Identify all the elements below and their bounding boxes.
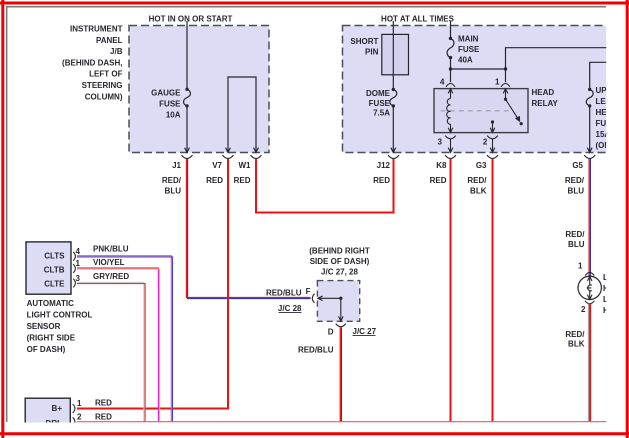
svg-text:PNK/BLU: PNK/BLU — [93, 244, 129, 253]
svg-text:W1: W1 — [239, 161, 252, 170]
pin V7 — [223, 155, 234, 158]
svg-text:K8: K8 — [436, 161, 447, 170]
pin W1 — [251, 155, 262, 158]
wire: main fuse to junction — [450, 58, 452, 69]
wire: B+ pin 2 bus to right edge (RED) — [77, 421, 607, 423]
svg-text:G5: G5 — [572, 161, 583, 170]
wire: V7-W1 jumper inside J/B — [226, 77, 259, 152]
svg-text:PANEL: PANEL — [96, 36, 123, 45]
wire: gauge fuse to pin J1 — [185, 106, 190, 152]
svg-text:J/C 27, 28: J/C 27, 28 — [321, 267, 358, 276]
fuse F1: GAUGE FUSE 10A — [151, 88, 190, 120]
junction connector J/C 28 box (dashed) — [317, 281, 359, 322]
svg-text:4: 4 — [440, 77, 445, 86]
svg-text:GAUGE: GAUGE — [151, 89, 181, 98]
svg-text:J/B: J/B — [110, 47, 123, 56]
svg-text:BLU: BLU — [568, 186, 585, 195]
wire: CLTS to bottom (PNK/BLU) — [77, 256, 171, 422]
svg-text:RED/: RED/ — [565, 330, 585, 339]
svg-text:RED/: RED/ — [565, 230, 585, 239]
pin 3 of sensor (CLTE) — [73, 279, 75, 288]
svg-text:SHORT: SHORT — [350, 37, 378, 46]
wire: G3 down to bottom (RED/BLK) — [492, 159, 494, 422]
battery box B+ — [25, 398, 70, 424]
svg-text:J/C 27: J/C 27 — [353, 327, 377, 336]
pin J12 — [388, 155, 399, 158]
wire label RED/BLK (below bulb) — [565, 330, 585, 348]
svg-text:GRY/RED: GRY/RED — [93, 272, 129, 281]
svg-text:HOT AT ALL TIMES: HOT AT ALL TIMES — [381, 14, 455, 23]
svg-text:RED/: RED/ — [162, 176, 182, 185]
wire label RED/BLU (J1) — [162, 176, 182, 195]
node: junction at relay pin 1 branch — [504, 67, 507, 70]
wire label RED/BLK (G3) — [467, 176, 487, 195]
svg-text:HOT IN ON OR START: HOT IN ON OR START — [149, 14, 233, 23]
pin 3 (below relay) — [438, 136, 456, 153]
bulb: left headlight — [578, 261, 615, 315]
svg-text:RED: RED — [95, 412, 112, 421]
svg-text:1: 1 — [77, 399, 82, 408]
junction block: HOT AT ALL TIMES box (dashed) — [343, 26, 629, 153]
svg-text:3: 3 — [76, 274, 81, 283]
wire: relay pin 2 (switched output) — [490, 120, 495, 132]
wire: coil bottom to pin 3 — [448, 124, 453, 132]
wire: D to bottom (RED/BLU) — [339, 327, 341, 422]
relay switch blade — [504, 98, 523, 126]
pin 1 of B+ — [73, 404, 75, 413]
svg-text:BLK: BLK — [568, 339, 585, 348]
svg-text:FUSE: FUSE — [369, 99, 391, 108]
wire label RED/BLU (above bulb) — [565, 230, 585, 249]
wire: short pin feed — [392, 21, 394, 89]
wire: W1 to J12 (RED) — [256, 159, 394, 213]
svg-text:RELAY: RELAY — [532, 99, 559, 108]
wire: J/C 28 internal F to D — [318, 296, 343, 321]
svg-text:SIDE OF DASH): SIDE OF DASH) — [310, 257, 370, 266]
wire: V7 to B+ pin 1 (RED) — [77, 159, 228, 409]
pin J1 — [182, 155, 193, 158]
svg-text:MAIN: MAIN — [458, 35, 479, 44]
wire: feed to upper left headlight fuse (from right, clipped) — [590, 62, 607, 89]
svg-text:INSTRUMENT: INSTRUMENT — [70, 25, 123, 34]
svg-text:40A: 40A — [458, 55, 473, 64]
wire: bus to right edge (to headlight fuses) — [506, 48, 607, 69]
svg-text:LEFT OF: LEFT OF — [89, 70, 122, 79]
svg-text:J/C 28: J/C 28 — [278, 304, 302, 313]
svg-text:CLTS: CLTS — [44, 252, 65, 261]
svg-text:(BEHIND RIGHT: (BEHIND RIGHT — [309, 246, 370, 255]
svg-text:DOME: DOME — [366, 89, 391, 98]
svg-text:RED: RED — [430, 176, 447, 185]
svg-text:1: 1 — [76, 259, 81, 268]
svg-text:RED/BLU: RED/BLU — [298, 345, 334, 354]
svg-text:RED: RED — [234, 176, 251, 185]
wire: headlight fuse to pin G5 — [587, 106, 592, 152]
svg-text:V7: V7 — [212, 161, 222, 170]
junction block: instrument panel J/B (dashed box) — [129, 26, 269, 153]
svg-text:3: 3 — [438, 138, 443, 147]
wire: dome fuse to pin J12 — [391, 106, 396, 152]
pin G3 — [487, 155, 498, 158]
fuse F3: MAIN FUSE 40A — [447, 35, 480, 65]
svg-text:J1: J1 — [172, 161, 181, 170]
pin D of J/C 28 — [336, 324, 346, 327]
svg-text:RED/BLU: RED/BLU — [266, 288, 302, 297]
wire: junction bar to relay pins 4 and 1 — [451, 68, 506, 70]
svg-text:1: 1 — [495, 77, 500, 86]
svg-text:BLK: BLK — [470, 186, 487, 195]
svg-text:BLU: BLU — [165, 186, 182, 195]
svg-text:LIGHT CONTROL: LIGHT CONTROL — [27, 311, 93, 320]
pin G5 — [584, 155, 595, 158]
svg-text:RED: RED — [95, 399, 112, 408]
automatic light control sensor box — [26, 242, 71, 294]
svg-text:4: 4 — [76, 247, 81, 256]
relay mechanical link (dashed) — [441, 110, 510, 112]
svg-text:FUSE: FUSE — [159, 100, 181, 109]
svg-text:7.5A: 7.5A — [373, 108, 390, 117]
svg-text:RED: RED — [206, 176, 223, 185]
svg-text:HEAD: HEAD — [532, 88, 555, 97]
svg-text:2: 2 — [483, 138, 488, 147]
wire: J1 to J/C28 pin F (RED/BLU) — [186, 159, 310, 298]
label: INSTRUMENT PANEL J/B location — [62, 25, 123, 102]
svg-text:CLTB: CLTB — [44, 266, 65, 275]
svg-text:(BEHIND DASH,: (BEHIND DASH, — [62, 58, 122, 67]
label: (BEHIND RIGHT SIDE OF DASH) J/C 27, 28 — [309, 246, 370, 276]
pin 1 of sensor (CLTB) — [73, 264, 75, 273]
fuse F4: UPPER LEFT HEADLIGHT FUSE (clipped at edge) — [586, 86, 623, 150]
pin 2 of B+ — [73, 417, 75, 426]
svg-text:RED/: RED/ — [467, 176, 487, 185]
svg-text:J12: J12 — [377, 161, 391, 170]
svg-text:VIO/YEL: VIO/YEL — [93, 258, 125, 267]
relay U1: HEAD RELAY box — [434, 89, 528, 133]
svg-text:F: F — [306, 287, 311, 296]
wire: gauge fuse feed (top) — [186, 21, 188, 89]
pin 4 of sensor (CLTS) — [73, 252, 75, 261]
pin K8 — [445, 155, 456, 158]
wire: G5 to bulb (RED/BLU) — [588, 159, 590, 276]
svg-text:OF DASH): OF DASH) — [27, 345, 66, 354]
svg-text:BLU: BLU — [568, 240, 585, 249]
svg-text:10A: 10A — [166, 111, 181, 120]
svg-text:B+: B+ — [52, 404, 63, 413]
svg-text:2: 2 — [77, 412, 82, 421]
svg-text:FUSE: FUSE — [458, 45, 480, 54]
fuse F2: DOME FUSE 7.5A — [366, 88, 397, 118]
pin 4 (relay coil top) — [440, 69, 455, 99]
svg-text:CLTE: CLTE — [44, 280, 65, 289]
svg-text:1: 1 — [578, 261, 583, 270]
label: AUTOMATIC LIGHT CONTROL SENSOR — [27, 299, 93, 354]
relay coil — [447, 99, 451, 125]
svg-text:PIN: PIN — [365, 48, 379, 57]
pin 2 (below relay) — [483, 136, 498, 153]
svg-text:RED: RED — [373, 176, 390, 185]
wire: CLTB to bottom (VIO/YEL) — [77, 268, 158, 422]
wire: bulb to bottom (RED/BLK) — [587, 304, 589, 422]
wire: CLTE to bottom (GRY/RED) — [77, 282, 144, 421]
svg-text:(RIGHT SIDE: (RIGHT SIDE — [27, 334, 76, 343]
svg-text:G3: G3 — [476, 161, 487, 170]
svg-text:D: D — [328, 328, 334, 337]
svg-text:2: 2 — [581, 305, 586, 314]
short pin SP — [382, 34, 409, 74]
svg-text:STEERING: STEERING — [82, 81, 123, 90]
svg-text:AUTOMATIC: AUTOMATIC — [27, 299, 74, 308]
svg-text:SENSOR: SENSOR — [27, 322, 61, 331]
pin F of J/C 28 — [312, 294, 314, 303]
svg-text:COLUMN): COLUMN) — [85, 92, 123, 101]
wire: K8 down to bottom (RED) — [450, 159, 452, 422]
pin 1 (relay switch common) — [495, 69, 510, 99]
wire: main fuse feed — [450, 21, 452, 38]
wire label RED/BLU (G5) — [565, 176, 585, 195]
node: junction at main fuse — [449, 67, 452, 70]
svg-text:RED/: RED/ — [565, 176, 585, 185]
